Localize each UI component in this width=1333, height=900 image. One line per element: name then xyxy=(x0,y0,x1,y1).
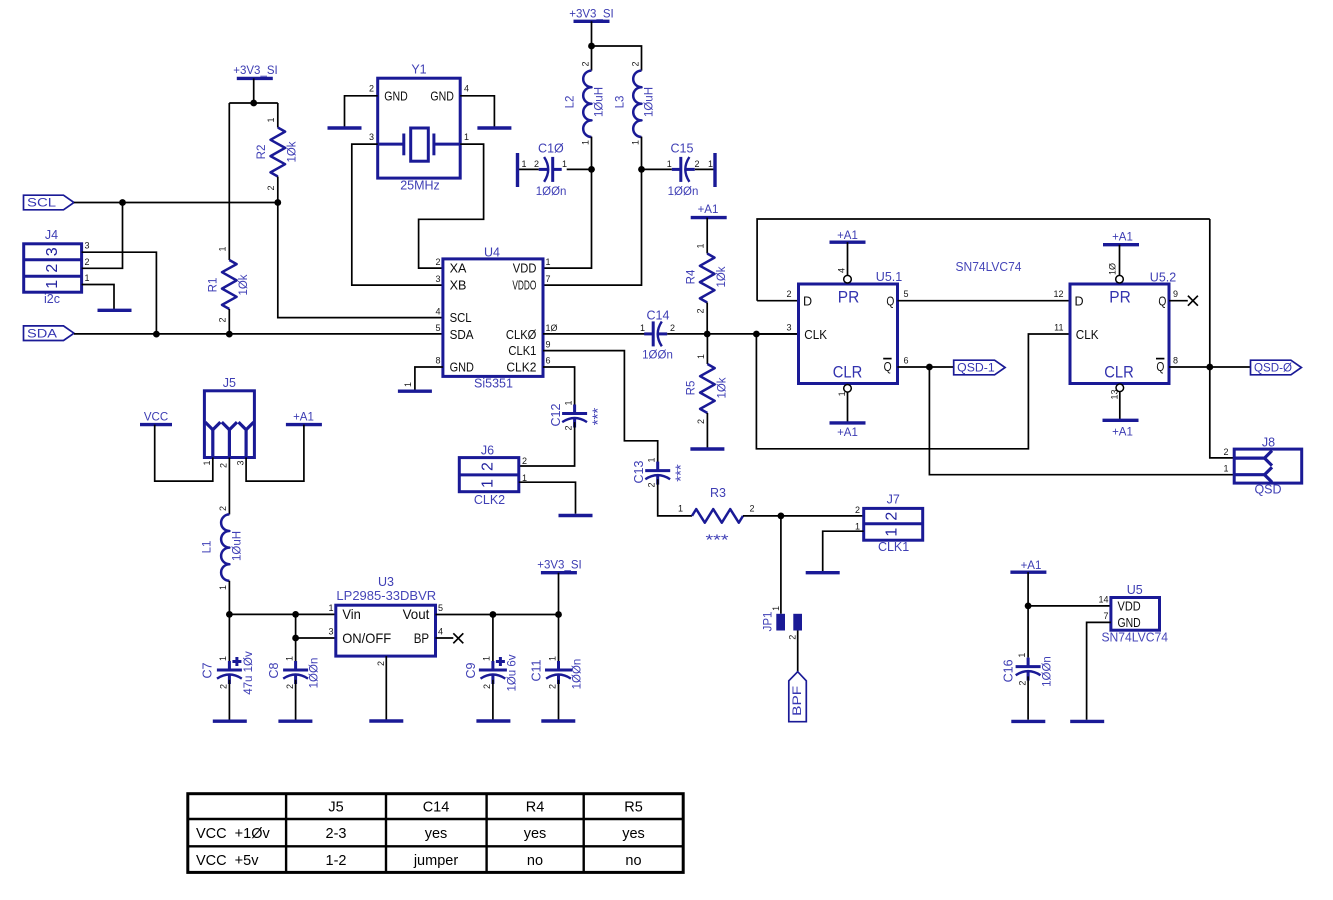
power symbol +3V3_SI above C11 xyxy=(537,559,581,572)
capacitor C7 (electrolytic) xyxy=(201,614,255,694)
wire CLK pin U5.1 xyxy=(756,333,798,335)
svg-text:J5: J5 xyxy=(328,800,343,816)
svg-text:1Øk: 1Øk xyxy=(238,274,250,295)
wire Y1 pin1 to U4 XA xyxy=(419,144,484,268)
svg-text:R3: R3 xyxy=(710,486,726,500)
wire C10 to ground bar xyxy=(518,168,539,170)
svg-text:1ØØn: 1ØØn xyxy=(536,186,567,198)
IC U5 power pins xyxy=(1098,583,1167,644)
wire J4 pin1 to ground xyxy=(82,285,114,310)
svg-text:8: 8 xyxy=(435,356,440,366)
svg-text:U3: U3 xyxy=(378,575,394,589)
net flag SCL xyxy=(24,195,75,210)
wire C9 to ground xyxy=(492,680,494,720)
power symbol +A1 below U5.1 CLR (inverted) xyxy=(830,423,866,439)
wire L3 bottom to C15 junction and U4 VDDO xyxy=(543,137,642,286)
svg-text:C9: C9 xyxy=(464,662,478,678)
svg-text:D: D xyxy=(803,295,812,309)
svg-text:R5: R5 xyxy=(624,800,643,816)
svg-text:QSD: QSD xyxy=(1254,482,1281,496)
crystal element inside Y1 xyxy=(378,128,461,161)
svg-text:ON/OFF: ON/OFF xyxy=(342,631,391,646)
junction C7/Vin xyxy=(226,611,233,618)
svg-text:8: 8 xyxy=(1173,355,1178,365)
wire +A1 to PR bubble U5.2 xyxy=(1119,245,1121,275)
ground at C15 (vertical bar) xyxy=(713,153,716,187)
ground under C16 xyxy=(1011,720,1045,723)
svg-text:4: 4 xyxy=(438,627,443,637)
svg-text:3: 3 xyxy=(786,322,791,332)
wire L2 bottom to C10 junction and U4 VDD xyxy=(543,137,592,269)
capacitor C11 xyxy=(530,615,584,690)
wire J6 pin1 to ground xyxy=(519,482,576,514)
svg-text:J7: J7 xyxy=(887,492,900,506)
svg-text:2: 2 xyxy=(522,456,527,466)
wire Q U5.2 no-connect xyxy=(1169,300,1188,302)
svg-text:GND: GND xyxy=(450,361,474,375)
svg-text:1ØØn: 1ØØn xyxy=(668,186,699,198)
IC U4 Si5351 xyxy=(443,246,543,391)
svg-text:2: 2 xyxy=(1017,681,1027,686)
svg-text:47u 1Øv: 47u 1Øv xyxy=(243,651,255,695)
junction L2/C10 xyxy=(588,166,595,173)
svg-text:R5: R5 xyxy=(686,381,698,396)
IC U5.2 flip-flop xyxy=(1070,271,1176,384)
junction C8/Vin xyxy=(292,611,299,618)
svg-text:1: 1 xyxy=(771,606,781,611)
wire Qbar U5.1 to QSD-1 xyxy=(898,366,954,368)
svg-text:Q: Q xyxy=(886,295,894,309)
wire rail to L2 xyxy=(591,46,593,71)
wire J4 pin3 to SDA xyxy=(82,252,157,334)
svg-text:2: 2 xyxy=(630,61,640,66)
svg-text:12: 12 xyxy=(1053,289,1063,299)
ground at J4 pin1 xyxy=(98,309,132,312)
svg-text:1Øu 6v: 1Øu 6v xyxy=(506,654,518,691)
svg-text:QSD-1: QSD-1 xyxy=(957,363,995,375)
wire R4 bottom to CLK node xyxy=(706,303,708,335)
svg-text:1: 1 xyxy=(667,159,672,169)
capacitor C12 xyxy=(549,400,606,430)
svg-text:L3: L3 xyxy=(615,96,627,109)
svg-text:2: 2 xyxy=(787,635,797,640)
svg-text:L2: L2 xyxy=(565,96,577,109)
svg-text:+3V3_SI: +3V3_SI xyxy=(233,65,277,77)
svg-text:3: 3 xyxy=(44,247,61,256)
svg-text:Q: Q xyxy=(884,360,892,374)
wire SCL down to U4 xyxy=(278,203,443,318)
svg-text:1Ø: 1Ø xyxy=(546,323,558,333)
svg-text:1: 1 xyxy=(480,479,497,488)
inductor L2 xyxy=(565,61,606,145)
svg-text:R2: R2 xyxy=(256,145,268,160)
wire U5 GND to ground xyxy=(1087,622,1111,719)
junction SCL / J4 pin2 branch xyxy=(119,199,126,206)
connector J6 xyxy=(459,443,527,507)
net flag SDA xyxy=(24,326,75,341)
svg-text:SCL: SCL xyxy=(27,198,57,210)
wire +A1 to J5 pin3 xyxy=(246,425,304,482)
svg-text:JP1: JP1 xyxy=(763,612,775,632)
svg-text:C12: C12 xyxy=(549,403,563,426)
svg-text:jumper: jumper xyxy=(413,853,458,869)
svg-text:GND: GND xyxy=(430,89,454,103)
svg-text:1: 1 xyxy=(678,504,683,514)
svg-text:1: 1 xyxy=(640,323,645,333)
svg-text:***: *** xyxy=(672,464,689,482)
ground under U5 GND xyxy=(1070,720,1104,723)
wire C12 bottom to J6 pin2 xyxy=(519,422,575,466)
svg-text:6: 6 xyxy=(904,355,909,365)
svg-text:CLK1: CLK1 xyxy=(878,540,909,554)
svg-text:1: 1 xyxy=(546,257,551,267)
junction C9/Vout xyxy=(490,611,497,618)
svg-text:2: 2 xyxy=(750,504,755,514)
power symbol +A1 above U5.1 PR xyxy=(830,230,866,242)
svg-text:J4: J4 xyxy=(45,228,58,242)
svg-text:+A1: +A1 xyxy=(837,230,858,242)
svg-text:VCC +1Øv: VCC +1Øv xyxy=(196,826,270,842)
svg-text:7: 7 xyxy=(1103,611,1108,621)
svg-text:1Øk: 1Øk xyxy=(716,266,728,287)
svg-text:1: 1 xyxy=(218,246,228,251)
svg-text:1: 1 xyxy=(547,656,557,661)
svg-text:C14: C14 xyxy=(647,309,670,323)
ground at U4 GND xyxy=(398,390,432,393)
svg-text:3: 3 xyxy=(435,274,440,284)
wire C14 to CLK junction xyxy=(667,333,798,335)
ground under C9 xyxy=(476,719,510,722)
pin numbers U5.1 xyxy=(786,268,908,396)
svg-text:2: 2 xyxy=(548,684,558,689)
wire Qbar U5.2 to QSD-0 xyxy=(1169,366,1251,368)
svg-text:CLR: CLR xyxy=(833,363,863,381)
svg-text:2: 2 xyxy=(218,506,228,511)
power symbol +3V3_SI (top) xyxy=(569,8,613,21)
ground under U3 xyxy=(369,719,403,722)
svg-text:Vin: Vin xyxy=(342,607,361,622)
junction Qbar U5.2 xyxy=(1206,364,1213,371)
wire C16 to ground xyxy=(1027,676,1029,719)
wire J7 pin1 to ground xyxy=(823,531,864,571)
svg-text:BP: BP xyxy=(414,631,429,646)
svg-text:4: 4 xyxy=(464,84,469,94)
wire +A1 to R4 xyxy=(706,218,708,254)
svg-text:2: 2 xyxy=(369,84,374,94)
svg-text:XA: XA xyxy=(450,262,467,276)
svg-text:QSD-Ø: QSD-Ø xyxy=(1254,363,1292,375)
svg-text:+A1: +A1 xyxy=(837,427,858,439)
svg-text:J6: J6 xyxy=(481,443,494,457)
svg-text:2: 2 xyxy=(85,257,90,267)
svg-text:1ØØn: 1ØØn xyxy=(1041,656,1053,687)
svg-text:C14: C14 xyxy=(423,800,450,816)
svg-text:1: 1 xyxy=(1017,653,1027,658)
svg-text:SN74LVC74: SN74LVC74 xyxy=(1101,630,1168,645)
svg-text:1: 1 xyxy=(696,354,706,359)
inductor L1 xyxy=(202,506,244,590)
net flag QSD-1 xyxy=(954,360,1005,375)
wire C11 to ground xyxy=(558,680,560,720)
ground at Y1 pin4 xyxy=(477,126,511,129)
capacitor C9 (electrolytic) xyxy=(464,615,519,692)
svg-text:1: 1 xyxy=(563,400,573,405)
wire L1 bottom to Vin node xyxy=(228,581,230,615)
svg-text:C16: C16 xyxy=(1001,659,1015,682)
wire CLK node to R5 xyxy=(706,334,708,364)
pin numbers U5.2 xyxy=(1053,263,1178,400)
svg-text:VDD: VDD xyxy=(1118,599,1141,613)
svg-text:1: 1 xyxy=(464,132,469,142)
capacitor C8 xyxy=(267,656,320,689)
svg-text:2: 2 xyxy=(1223,447,1228,457)
power symbol +A1 below U5.2 CLR (inverted) xyxy=(1103,420,1139,438)
wire R5 bottom to ground xyxy=(706,413,708,448)
svg-text:2: 2 xyxy=(219,463,229,468)
wire U3 BP no-connect xyxy=(436,637,454,639)
svg-text:VCC +5v: VCC +5v xyxy=(196,853,259,869)
wire ON/OFF to U3 xyxy=(296,637,336,639)
svg-text:3: 3 xyxy=(85,241,90,251)
svg-text:2: 2 xyxy=(647,482,657,487)
ground at J7 pin1 xyxy=(806,571,840,574)
wire J4 pin2 to SCL xyxy=(82,203,123,269)
ground at J6 pin1 xyxy=(559,514,593,517)
svg-text:yes: yes xyxy=(524,826,547,842)
svg-text:D: D xyxy=(1075,295,1084,309)
wire U3 GND pin to ground xyxy=(385,656,387,719)
wire C7 to ground xyxy=(228,680,230,720)
ground at C10 (vertical bar) xyxy=(516,153,519,187)
svg-text:2-3: 2-3 xyxy=(326,826,347,842)
wire U4 CLK0 to C14 xyxy=(543,333,646,335)
junction at 3V3 rail xyxy=(250,100,257,107)
svg-text:Vout: Vout xyxy=(403,607,430,622)
wire CLR bubble to +A1 U5.2 xyxy=(1119,392,1121,419)
svg-text:SCL: SCL xyxy=(450,311,472,325)
wire Vin node xyxy=(229,613,335,615)
svg-text:1Ø: 1Ø xyxy=(1108,263,1118,275)
capacitor C13 xyxy=(632,457,689,487)
junction ON/OFF branch xyxy=(292,635,299,642)
capacitor C10 xyxy=(521,142,567,198)
svg-text:2: 2 xyxy=(218,317,228,322)
svg-text:BPF: BPF xyxy=(792,686,804,716)
svg-text:1: 1 xyxy=(403,382,413,387)
svg-text:SDA: SDA xyxy=(27,328,57,340)
svg-text:CLKØ: CLKØ xyxy=(506,328,537,342)
svg-text:6: 6 xyxy=(546,356,551,366)
wire Y1 pin3 to U4 XB xyxy=(352,144,443,285)
svg-text:1: 1 xyxy=(85,273,90,283)
wire J5 pin2 to L1 xyxy=(228,458,230,515)
wire +3V3_SI to Vout node xyxy=(558,573,560,615)
svg-text:2: 2 xyxy=(670,323,675,333)
no-connect X at U3 BP xyxy=(453,633,463,643)
svg-text:U5.2: U5.2 xyxy=(1150,271,1176,285)
power symbol +A1 above R4 xyxy=(691,204,727,217)
svg-text:+A1: +A1 xyxy=(698,204,719,216)
svg-text:CLK2: CLK2 xyxy=(506,361,536,375)
power symbol +A1 right of J5 xyxy=(286,411,322,424)
svg-text:3: 3 xyxy=(235,460,245,465)
svg-text:GND: GND xyxy=(1118,616,1141,630)
wire Y1 pin2 to ground xyxy=(345,96,378,127)
wire C13 bottom to R3 xyxy=(658,479,692,516)
junction C16/VDD xyxy=(1025,603,1032,610)
wire Qbar U5.1 to J8 pin1 xyxy=(929,367,1234,475)
svg-text:J8: J8 xyxy=(1262,435,1275,449)
svg-text:2: 2 xyxy=(855,505,860,515)
svg-text:2: 2 xyxy=(482,684,492,689)
no-connect X at U5.2 Q xyxy=(1188,296,1198,306)
svg-text:1: 1 xyxy=(884,528,901,537)
inversion bubble PR U5.2 xyxy=(1116,275,1124,283)
svg-text:U5.1: U5.1 xyxy=(876,270,902,284)
svg-text:XB: XB xyxy=(450,279,467,293)
svg-text:1: 1 xyxy=(218,656,228,661)
svg-text:***: *** xyxy=(706,531,729,548)
wire R2 top lead from rail xyxy=(277,103,279,128)
inversion bubble CLR U5.2 xyxy=(1116,384,1124,392)
svg-text:U5: U5 xyxy=(1127,583,1143,597)
wire rail to L3 xyxy=(592,46,642,71)
svg-text:2: 2 xyxy=(694,159,699,169)
svg-text:1: 1 xyxy=(630,140,640,145)
svg-text:2: 2 xyxy=(696,419,706,424)
svg-text:1: 1 xyxy=(1223,464,1228,474)
svg-text:1ØuH: 1ØuH xyxy=(644,87,656,117)
connector J7 xyxy=(855,492,923,554)
IC U5.1 flip-flop xyxy=(799,270,903,384)
wire R1 bottom lead to SDA xyxy=(228,309,230,334)
svg-text:C15: C15 xyxy=(671,142,694,156)
wire JP1 pin2 to BPF flag xyxy=(797,631,799,672)
junction CLK to U5.2 branch xyxy=(753,331,760,338)
svg-text:5: 5 xyxy=(435,323,440,333)
capacitor C14 xyxy=(640,309,675,362)
junction L2/L3 rail xyxy=(588,43,595,50)
svg-text:2: 2 xyxy=(266,185,276,190)
svg-text:+3V3_SI: +3V3_SI xyxy=(569,8,613,20)
wire U4 CLK1 to C13 xyxy=(543,351,658,462)
resistor R2 xyxy=(256,117,299,190)
junction Qbar U5.1 xyxy=(926,364,933,371)
svg-text:4: 4 xyxy=(837,268,847,273)
svg-text:no: no xyxy=(625,853,641,869)
pin numbers U3 xyxy=(328,603,443,666)
svg-text:yes: yes xyxy=(425,826,448,842)
wire CLK bottom bus to U5.2 xyxy=(756,334,1070,449)
svg-text:2: 2 xyxy=(435,257,440,267)
svg-text:2: 2 xyxy=(534,159,539,169)
svg-text:1: 1 xyxy=(284,656,294,661)
svg-text:2: 2 xyxy=(786,289,791,299)
resistor R5 xyxy=(686,354,729,424)
wire +3V3_SI stem xyxy=(253,78,255,103)
wire Qbar U5.2 to top bus and J8 pin2 xyxy=(1210,219,1234,458)
capacitor C16 xyxy=(1001,606,1053,687)
wire Vout to +3V3_SI xyxy=(436,614,559,616)
power symbol +A1 above U5.2 PR xyxy=(1103,231,1139,244)
svg-text:yes: yes xyxy=(622,826,645,842)
wire junction down to JP1 xyxy=(780,516,782,614)
svg-text:4: 4 xyxy=(435,306,440,316)
svg-text:C11: C11 xyxy=(530,659,544,681)
svg-text:1: 1 xyxy=(482,656,492,661)
wire C15 to ground bar xyxy=(695,168,715,170)
svg-text:1: 1 xyxy=(708,159,713,169)
power symbol +3V3_SI (top-left) xyxy=(233,65,277,78)
wire R1 top lead from rail xyxy=(228,103,230,260)
svg-text:+A1: +A1 xyxy=(1112,427,1133,439)
svg-text:VDD: VDD xyxy=(513,262,537,276)
wire C15 to L3 node xyxy=(642,168,672,170)
svg-text:1ØuH: 1ØuH xyxy=(231,531,243,561)
svg-text:GND: GND xyxy=(384,89,408,103)
wire VCC to J5 pin1 xyxy=(155,425,213,482)
svg-text:R1: R1 xyxy=(208,278,220,293)
svg-text:Q: Q xyxy=(1158,295,1166,309)
svg-text:1: 1 xyxy=(202,460,212,465)
svg-text:2: 2 xyxy=(480,462,497,471)
svg-text:CLK: CLK xyxy=(1076,328,1099,342)
svg-text:Y1: Y1 xyxy=(411,63,426,77)
svg-text:C1Ø: C1Ø xyxy=(538,142,564,156)
wire rail to R1/R2 tops xyxy=(229,102,277,104)
svg-text:CLK: CLK xyxy=(804,328,827,342)
junction C14/R4/R5 xyxy=(704,331,711,338)
wire D pin U5.1 xyxy=(757,300,798,302)
junction SDA / J4 pin3 xyxy=(153,331,160,338)
wire R2 bottom lead to SCL xyxy=(277,177,279,203)
wire C8 branch down xyxy=(295,614,297,661)
jumper JP1 xyxy=(763,606,802,640)
wire CLR bubble to +A1 xyxy=(847,392,849,422)
svg-text:no: no xyxy=(527,853,543,869)
svg-text:9: 9 xyxy=(546,339,551,349)
svg-text:i2c: i2c xyxy=(44,292,60,306)
ground under C8 xyxy=(278,720,312,723)
svg-text:2: 2 xyxy=(884,512,901,521)
svg-text:1: 1 xyxy=(266,117,276,122)
inversion bubble PR U5.1 xyxy=(844,275,852,283)
svg-text:2: 2 xyxy=(44,264,61,273)
ground under C11 xyxy=(541,719,575,722)
junction SDA / R1 xyxy=(226,331,233,338)
svg-text:SDA: SDA xyxy=(450,328,475,342)
power symbol +A1 above C16 xyxy=(1010,560,1046,572)
svg-text:R4: R4 xyxy=(526,800,545,816)
svg-text:1ØuH: 1ØuH xyxy=(594,87,606,117)
svg-text:CLR: CLR xyxy=(1104,363,1134,381)
junction C11/Vout xyxy=(555,611,562,618)
resistor R3 xyxy=(678,486,755,548)
svg-text:PR: PR xyxy=(838,288,860,306)
svg-text:+3V3_SI: +3V3_SI xyxy=(537,559,581,571)
svg-text:R4: R4 xyxy=(686,269,698,284)
svg-text:1: 1 xyxy=(44,280,61,289)
inductor L3 xyxy=(615,61,656,145)
svg-text:C13: C13 xyxy=(632,460,646,483)
svg-text:CLK1: CLK1 xyxy=(508,344,536,358)
svg-text:11: 11 xyxy=(1054,322,1063,332)
wire VDD node to U5 xyxy=(1028,605,1111,607)
net flag QSD-0 xyxy=(1251,360,1302,375)
svg-text:3: 3 xyxy=(369,132,374,142)
svg-text:+A1: +A1 xyxy=(1112,231,1133,243)
svg-text:14: 14 xyxy=(1098,595,1108,605)
